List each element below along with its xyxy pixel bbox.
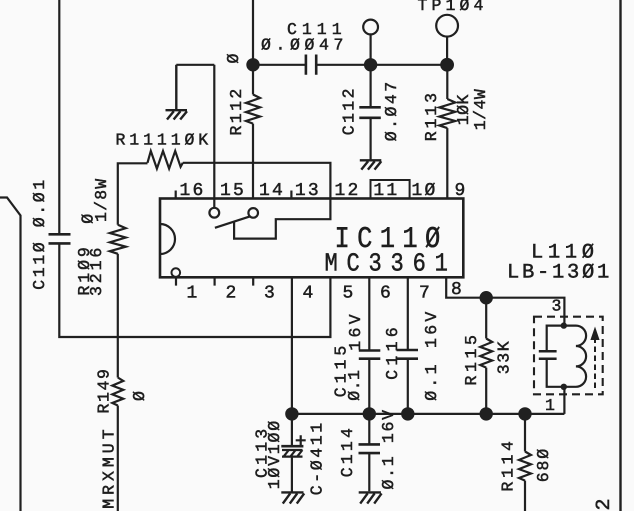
- resistor R112: [246, 95, 260, 199]
- node C116: [401, 407, 414, 420]
- svg-text:3216: 3216: [87, 245, 106, 296]
- node C112/TP: [364, 58, 377, 71]
- resistor R115: [480, 298, 492, 414]
- svg-text:R114: R114: [498, 437, 517, 491]
- svg-text:16V: 16V: [346, 311, 365, 351]
- capacitor C110: [49, 234, 71, 243]
- svg-text:1: 1: [545, 396, 555, 415]
- svg-text:Ø: Ø: [224, 54, 243, 64]
- L110 dashed box: [534, 317, 603, 395]
- resistor R149: [112, 337, 123, 511]
- resistor R111: [148, 151, 183, 169]
- pin ticks bottom 1,2,3: [176, 277, 253, 285]
- capacitor C112: [370, 65, 372, 107]
- svg-text:R149: R149: [95, 367, 114, 413]
- svg-text:C-Ø411: C-Ø411: [308, 420, 327, 495]
- wire C110 bottom to bus y337 to pin5: [59, 243, 330, 337]
- capacitor C114: [368, 414, 370, 444]
- switch contact B (pin14): [248, 208, 258, 218]
- pin numbers bottom: [187, 280, 465, 303]
- ground top: [166, 65, 188, 120]
- svg-text:1ØV1ØØ: 1ØV1ØØ: [265, 419, 284, 489]
- capacitor C115: [359, 351, 381, 359]
- svg-text:33K: 33K: [495, 340, 514, 375]
- svg-text:R113: R113: [422, 90, 441, 141]
- svg-text:12: 12: [335, 181, 361, 201]
- svg-text:Ø.1: Ø.1: [345, 370, 364, 401]
- testpoint TP104: [436, 15, 458, 37]
- svg-text:5: 5: [343, 283, 356, 303]
- L110 inductor coil: [564, 326, 586, 387]
- svg-text:R1111ØK: R1111ØK: [116, 130, 213, 149]
- svg-text:1: 1: [187, 283, 200, 303]
- svg-text:4: 4: [303, 283, 316, 303]
- wire top node bus: [371, 64, 447, 66]
- svg-text:1/8W: 1/8W: [92, 178, 111, 222]
- svg-text:R112: R112: [227, 86, 246, 135]
- svg-text:MC3361: MC3361: [325, 248, 457, 278]
- capacitor C116: [397, 350, 419, 359]
- svg-text:1Ø: 1Ø: [412, 181, 438, 201]
- svg-text:9: 9: [455, 181, 468, 201]
- node R115 bottom: [480, 407, 493, 420]
- resistor R109: [110, 163, 148, 337]
- svg-text:13: 13: [295, 181, 321, 201]
- node C113: [285, 407, 298, 420]
- svg-text:TP1Ø4: TP1Ø4: [418, 0, 488, 15]
- svg-text:68Ø: 68Ø: [534, 447, 553, 482]
- svg-text:MRXMUT: MRXMUT: [99, 425, 118, 508]
- wire R112 top lead: [252, 0, 254, 95]
- wire pin7 to C116: [407, 277, 409, 350]
- svg-text:14: 14: [259, 181, 285, 201]
- pin ticks top 16,13: [176, 191, 292, 199]
- svg-text:C116: C116: [383, 323, 402, 380]
- svg-text:3: 3: [264, 283, 277, 303]
- svg-text:Ø.ØØ47: Ø.ØØ47: [261, 36, 348, 55]
- wire pin6 to C115: [368, 277, 370, 350]
- horizontal labels: [116, 0, 613, 415]
- wire left angled entry: [0, 198, 21, 511]
- ground C112: [360, 160, 382, 169]
- svg-text:Ø.Ø47: Ø.Ø47: [382, 79, 401, 141]
- svg-text:C114: C114: [338, 425, 357, 477]
- svg-text:1/4W: 1/4W: [471, 89, 490, 131]
- L110 capacitor branch: [547, 326, 564, 351]
- node R114 top: [518, 407, 531, 420]
- svg-text:Ø.1 16V: Ø.1 16V: [422, 308, 441, 400]
- box around pin 11: [371, 180, 410, 199]
- ground C113: [281, 492, 304, 503]
- wire ground corner to pin15: [176, 65, 214, 208]
- C113 plus sign: [296, 435, 306, 445]
- svg-text:7: 7: [419, 283, 432, 303]
- resistor R113: [439, 65, 455, 199]
- node pin8/R115: [480, 291, 493, 304]
- switch arm: [215, 216, 250, 227]
- node TP104/R113: [440, 58, 454, 72]
- wire R111 to pin12 and internal bracket: [183, 163, 331, 239]
- svg-text:Ø.1 16V: Ø.1 16V: [379, 408, 398, 489]
- wire pin8 to L110 top: [446, 277, 564, 325]
- svg-text:Ø: Ø: [130, 391, 149, 401]
- node L110 top: [561, 322, 567, 328]
- svg-text:6: 6: [380, 283, 393, 303]
- svg-text:15: 15: [220, 181, 246, 201]
- svg-text:2: 2: [593, 498, 616, 510]
- svg-text:11: 11: [373, 181, 399, 201]
- svg-text:2: 2: [226, 283, 239, 303]
- svg-text:16: 16: [180, 181, 206, 201]
- node R112/C111: [246, 58, 259, 71]
- node L110 bottom: [561, 384, 567, 390]
- svg-text:R115: R115: [462, 331, 481, 385]
- wire bottom bus y414: [292, 387, 565, 414]
- IC notch: [160, 224, 175, 254]
- testpoint circle small: [363, 20, 378, 35]
- capacitor C111: [253, 64, 371, 66]
- capacitor C113 electrolytic: [291, 414, 293, 446]
- wire C110 top lead: [58, 0, 60, 234]
- svg-text:C11Ø Ø.Ø1: C11Ø Ø.Ø1: [30, 177, 49, 290]
- node C114: [363, 407, 376, 420]
- svg-text:C112: C112: [340, 86, 359, 135]
- ground C114: [359, 492, 382, 503]
- svg-text:8: 8: [451, 280, 464, 300]
- resistor R114: [519, 414, 531, 511]
- L110 tuning arrow: [594, 336, 596, 388]
- wire pin4 down: [291, 277, 293, 414]
- wire right border: [619, 0, 621, 511]
- arrowhead: [590, 327, 599, 341]
- IC110 box: [160, 199, 463, 278]
- pin1 indicator: [172, 268, 181, 277]
- svg-text:LB-13Ø1: LB-13Ø1: [507, 262, 612, 285]
- switch contact A (pin15): [209, 208, 219, 218]
- svg-text:3: 3: [552, 297, 562, 316]
- pin numbers top: [180, 181, 468, 201]
